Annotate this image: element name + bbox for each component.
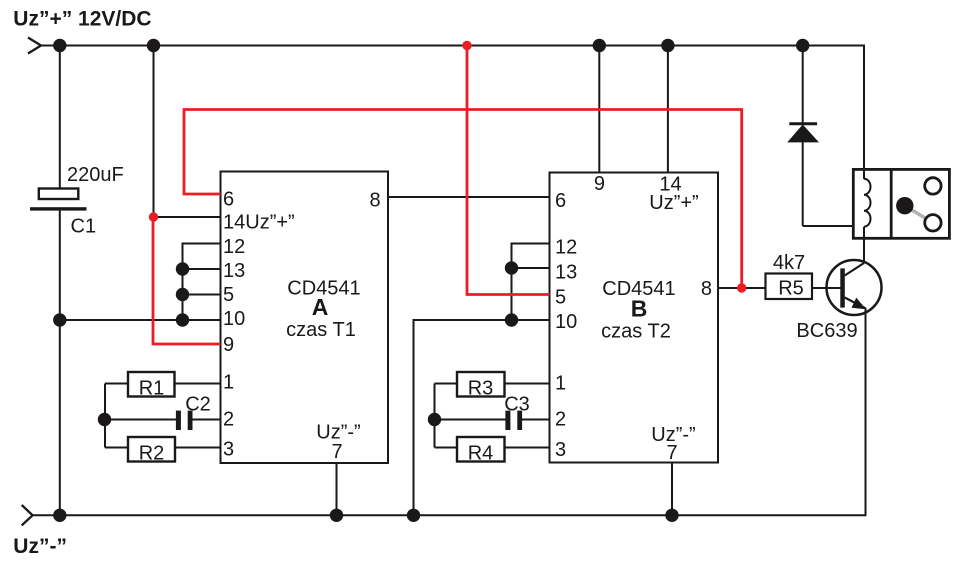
svg-text:9: 9 (223, 334, 234, 356)
svg-text:4k7: 4k7 (773, 252, 805, 274)
svg-text:Uz”+” 12V/DC: Uz”+” 12V/DC (13, 8, 151, 31)
svg-text:2: 2 (223, 409, 234, 431)
svg-text:10: 10 (555, 311, 577, 333)
svg-text:R1: R1 (139, 378, 165, 400)
svg-text:Uz”-”: Uz”-” (13, 535, 67, 558)
svg-text:BC639: BC639 (796, 320, 857, 342)
svg-text:6: 6 (555, 190, 566, 212)
svg-text:2: 2 (555, 409, 566, 431)
svg-text:5: 5 (555, 287, 566, 309)
svg-text:Uz”+”: Uz”+” (649, 192, 698, 214)
svg-text:R2: R2 (139, 443, 165, 465)
svg-text:C3: C3 (504, 394, 530, 416)
svg-text:13: 13 (555, 262, 577, 284)
svg-text:R5: R5 (778, 278, 804, 300)
svg-text:14Uz”+”: 14Uz”+” (223, 212, 295, 234)
svg-text:czas T2: czas T2 (601, 321, 671, 343)
svg-text:6: 6 (223, 189, 234, 211)
svg-text:czas T1: czas T1 (286, 319, 356, 341)
svg-text:1: 1 (555, 373, 566, 395)
svg-text:8: 8 (369, 190, 380, 212)
svg-text:7: 7 (331, 441, 342, 463)
svg-text:C1: C1 (71, 215, 97, 237)
svg-text:8: 8 (701, 278, 712, 300)
svg-text:C2: C2 (185, 394, 211, 416)
svg-text:B: B (631, 296, 648, 322)
svg-text:9: 9 (594, 173, 605, 195)
svg-text:10: 10 (223, 308, 245, 330)
svg-text:7: 7 (666, 442, 677, 464)
svg-text:R4: R4 (468, 443, 494, 465)
svg-text:220uF: 220uF (67, 164, 124, 186)
svg-text:R3: R3 (468, 378, 494, 400)
svg-text:A: A (312, 294, 329, 320)
svg-text:3: 3 (223, 439, 234, 461)
svg-text:5: 5 (223, 284, 234, 306)
svg-text:12: 12 (223, 236, 245, 258)
svg-text:1: 1 (223, 372, 234, 394)
svg-text:3: 3 (555, 439, 566, 461)
svg-text:13: 13 (223, 260, 245, 282)
svg-text:12: 12 (555, 237, 577, 259)
